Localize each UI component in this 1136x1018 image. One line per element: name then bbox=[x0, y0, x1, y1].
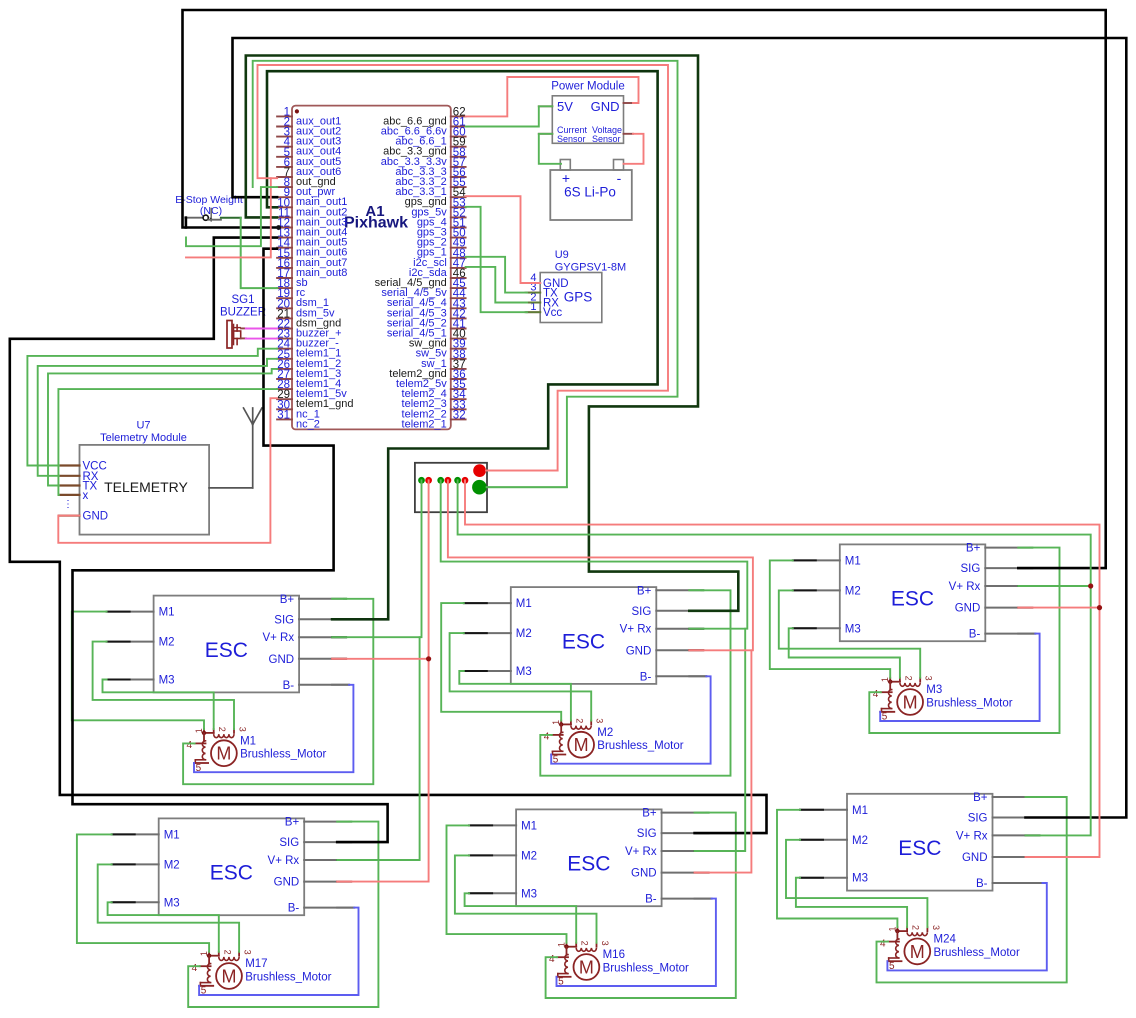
svg-text:ESC: ESC bbox=[210, 862, 253, 885]
wire telem1_3 A1-26 to telemetry TX bbox=[48, 369, 277, 486]
svg-text:3: 3 bbox=[238, 727, 248, 732]
wire U3 B- to M3 pin5 bbox=[880, 634, 1039, 721]
PDB pin dot 4 bbox=[445, 477, 452, 484]
wire PDB pin6 to ESC U3 and U6 GND bbox=[465, 480, 1100, 857]
wire abc_6.6_gnd A1-62 to power module GND bbox=[466, 77, 639, 116]
PDB pin dot 6 bbox=[462, 477, 469, 484]
junction U3 V+Rx tap bbox=[1088, 583, 1093, 588]
svg-text:U9: U9 bbox=[555, 249, 569, 261]
svg-text:U7: U7 bbox=[136, 420, 150, 432]
wire gps_5v A1-53 to GPS Vcc bbox=[466, 207, 527, 312]
svg-text:Brushless_Motor: Brushless_Motor bbox=[240, 749, 326, 761]
wire PDB pin2 to ESC U1 and U4 GND bbox=[337, 480, 428, 881]
svg-text:Brushless_Motor: Brushless_Motor bbox=[245, 971, 331, 983]
svg-text:Power Module: Power Module bbox=[551, 81, 625, 93]
wire U5 M2 to M16 pin3 bbox=[455, 855, 597, 942]
svg-text:nc_2: nc_2 bbox=[296, 418, 320, 430]
wire PDB GND east bbox=[487, 486, 567, 488]
junction U1 GND tap bbox=[426, 656, 431, 661]
svg-text:x: x bbox=[83, 490, 89, 502]
wire U2 B+ to M2 pin4 bbox=[540, 590, 730, 775]
svg-text:4: 4 bbox=[549, 954, 555, 965]
ESC U5 bbox=[469, 808, 711, 907]
svg-text:GND: GND bbox=[274, 877, 300, 889]
wire U4 M1 to M17 pin1 bbox=[77, 834, 209, 951]
svg-text:3: 3 bbox=[924, 676, 934, 681]
wire i2c_scl A1-48 to GPS TX bbox=[466, 257, 527, 293]
motor M17 Brushless_Motor bbox=[192, 950, 332, 997]
wire U5 B- to M16 pin5 bbox=[557, 899, 716, 986]
svg-text:M2: M2 bbox=[597, 727, 613, 739]
svg-text:SIG: SIG bbox=[631, 606, 651, 618]
ESC U3 bbox=[793, 543, 1036, 642]
node GND big green bbox=[472, 480, 487, 495]
wire abc_6.6_6.6v A1-61 to power module 5V bbox=[466, 106, 553, 126]
svg-text:2: 2 bbox=[574, 718, 584, 723]
svg-text:3: 3 bbox=[243, 950, 253, 955]
ESC U2 bbox=[464, 585, 707, 684]
svg-text:4: 4 bbox=[544, 732, 550, 743]
power distribution board PDB bbox=[415, 463, 487, 512]
svg-text:M: M bbox=[222, 967, 237, 987]
wire U6 B+ to M24 pin4 bbox=[877, 797, 1067, 982]
wire U3 M3 to M3 pin2 bbox=[789, 628, 900, 678]
wire main_out4 A1-12 to ESC U3 SIG bbox=[183, 10, 1106, 568]
wire U6 M2 to M24 pin3 bbox=[786, 840, 927, 927]
svg-text:M2: M2 bbox=[164, 859, 180, 871]
svg-text:4: 4 bbox=[873, 689, 879, 700]
svg-text:B-: B- bbox=[969, 629, 981, 641]
wire U2 M2 to M2 pin3 bbox=[450, 633, 592, 720]
wire U3 M1 to M3 pin1 bbox=[770, 560, 890, 677]
telemetry module U7 bbox=[59, 420, 209, 535]
svg-text:M3: M3 bbox=[852, 873, 868, 885]
wire branch to ESC U5 GND bbox=[695, 650, 752, 872]
svg-text:B-: B- bbox=[645, 894, 657, 906]
svg-text:Brushless_Motor: Brushless_Motor bbox=[597, 740, 683, 752]
flight controller A1 Pixhawk bbox=[292, 106, 451, 430]
svg-text:M17: M17 bbox=[245, 958, 267, 970]
wire current sensor to battery plus bbox=[539, 134, 561, 164]
svg-text:M1: M1 bbox=[240, 735, 256, 747]
svg-text:GND: GND bbox=[591, 99, 620, 114]
svg-text:3: 3 bbox=[595, 718, 605, 723]
wire buzzer minus A1-23 bbox=[246, 338, 277, 340]
PDB pin dot 5 bbox=[454, 477, 461, 484]
svg-text:V+ Rx: V+ Rx bbox=[956, 830, 988, 842]
svg-text:M2: M2 bbox=[845, 585, 861, 597]
wire E-stop to rc A1-18 bbox=[221, 217, 241, 219]
wire U3 B+ to M3 pin4 bbox=[869, 548, 1059, 733]
ESC U1 bbox=[107, 594, 350, 693]
svg-text:M3: M3 bbox=[164, 897, 180, 909]
svg-text:M3: M3 bbox=[521, 888, 537, 900]
wire telem1_2 A1-25 to telemetry RX bbox=[38, 359, 277, 476]
svg-text:M2: M2 bbox=[159, 637, 175, 649]
PDB pin dot 2 bbox=[425, 477, 432, 484]
svg-text:3: 3 bbox=[600, 941, 610, 946]
svg-text:2: 2 bbox=[911, 925, 921, 930]
svg-text:B-: B- bbox=[640, 671, 652, 683]
wire out_pwr A1-8 branch with open end bbox=[186, 187, 277, 246]
svg-text:Brushless_Motor: Brushless_Motor bbox=[603, 962, 689, 974]
svg-text:2: 2 bbox=[580, 941, 590, 946]
svg-text:ESC: ESC bbox=[898, 837, 941, 860]
buzzer SG1 bbox=[220, 294, 266, 348]
svg-text:-: - bbox=[617, 170, 622, 186]
wire out_pwr to PDB GND node bbox=[253, 61, 678, 487]
svg-text:ESC: ESC bbox=[205, 639, 248, 662]
svg-text:SIG: SIG bbox=[274, 614, 294, 626]
wire telem1_1 A1-24 to telemetry VCC bbox=[27, 349, 277, 466]
motor M24 Brushless_Motor bbox=[880, 925, 1020, 972]
svg-text:M: M bbox=[574, 735, 589, 755]
svg-text:BUZZER: BUZZER bbox=[220, 307, 266, 319]
wire main_out3 A1-11 to ESC U2 SIG dark green bbox=[246, 56, 739, 611]
svg-text:3: 3 bbox=[931, 925, 941, 930]
wire out_gnd branch to dangling end bbox=[186, 178, 271, 257]
wire U5 B+ to M16 pin4 bbox=[546, 813, 736, 998]
svg-text:V+ Rx: V+ Rx bbox=[268, 855, 300, 867]
A1 left pins 1-31 with labels bbox=[277, 106, 353, 430]
switch SW1 E-Stop Weight NC bbox=[175, 194, 243, 221]
svg-text:Brushless_Motor: Brushless_Motor bbox=[926, 697, 1012, 709]
svg-text:2: 2 bbox=[222, 950, 232, 955]
svg-text:Brushless_Motor: Brushless_Motor bbox=[934, 947, 1020, 959]
PDB pin dot 1 bbox=[418, 477, 425, 484]
wire U1 M1 to M1 pin1 bbox=[72, 612, 204, 729]
wire out_gnd A1-7 to PDB V+ node bbox=[258, 65, 669, 471]
wire telem1_5v A1-28 to telemetry x bbox=[58, 389, 277, 495]
svg-text:M: M bbox=[216, 744, 231, 764]
wire U3 M2 to M3 pin3 bbox=[779, 590, 920, 677]
wire U1 B+ to M1 pin4 bbox=[183, 599, 373, 784]
A1 right pins 62-32 with labels bbox=[375, 106, 467, 430]
svg-text:V+ Rx: V+ Rx bbox=[625, 846, 657, 858]
battery BT1 6S Li-Po bbox=[550, 160, 632, 221]
wire U4 B- to M17 pin5 bbox=[199, 908, 358, 995]
wire i2c_sda A1-47 to GPS RX bbox=[466, 267, 527, 303]
svg-text:B+: B+ bbox=[637, 585, 652, 597]
svg-text:M2: M2 bbox=[516, 628, 532, 640]
GPS module U9 GYGPSV1-8M bbox=[525, 249, 626, 323]
svg-text:M1: M1 bbox=[164, 829, 180, 841]
wire U1 M2 to M1 pin3 bbox=[93, 642, 234, 729]
svg-text:M1: M1 bbox=[516, 598, 532, 610]
svg-text:4: 4 bbox=[880, 938, 886, 949]
svg-text:2: 2 bbox=[217, 727, 227, 732]
svg-text:M3: M3 bbox=[516, 666, 532, 678]
svg-text:B+: B+ bbox=[642, 808, 657, 820]
wire U2 M1 to M2 pin1 bbox=[441, 603, 561, 720]
antenna AE1 bbox=[209, 408, 262, 488]
svg-text:V+ Rx: V+ Rx bbox=[620, 624, 652, 636]
wire main_out5 A1-13 to ESC U5 SIG bbox=[10, 238, 767, 834]
svg-text:TELEMETRY: TELEMETRY bbox=[104, 479, 188, 495]
svg-text:M3: M3 bbox=[845, 623, 861, 635]
wire telem1_gnd A1-29 to telemetry GND bbox=[58, 398, 277, 543]
svg-text:V+ Rx: V+ Rx bbox=[949, 581, 981, 593]
svg-text:Sensor: Sensor bbox=[557, 134, 586, 144]
svg-text:ESC: ESC bbox=[562, 630, 605, 653]
svg-text:Sensor: Sensor bbox=[592, 134, 621, 144]
wire U2 M3 to M2 pin2 bbox=[459, 671, 571, 721]
ESC U6 bbox=[800, 792, 1043, 891]
svg-text:B+: B+ bbox=[280, 594, 295, 606]
wire voltage sensor to battery minus bbox=[624, 134, 644, 164]
ESC U4 bbox=[112, 817, 355, 916]
svg-text:GND: GND bbox=[626, 645, 652, 657]
svg-text:telem2_1: telem2_1 bbox=[402, 418, 447, 430]
wire PDB pin4 to ESC U2 GND bbox=[448, 480, 753, 650]
wire U1 M3 to M1 pin2 bbox=[103, 680, 214, 730]
wire main_out1 A1-9 to ESC U6 SIG bbox=[233, 38, 1127, 818]
svg-text:M1: M1 bbox=[845, 555, 861, 567]
svg-text:M16: M16 bbox=[603, 949, 625, 961]
svg-text:ESC: ESC bbox=[567, 853, 610, 876]
svg-text:4: 4 bbox=[192, 963, 198, 974]
wire PDB pin1 to ESC U1 and U4 V+Rx bbox=[332, 480, 421, 637]
svg-text:SIG: SIG bbox=[279, 837, 299, 849]
wire U4 M2 to M17 pin3 bbox=[98, 864, 239, 951]
svg-text:Pixhawk: Pixhawk bbox=[344, 215, 408, 232]
svg-text:B-: B- bbox=[283, 680, 295, 692]
svg-text:B+: B+ bbox=[285, 817, 300, 829]
svg-text:B+: B+ bbox=[966, 543, 981, 555]
wire PDB V+ east bbox=[486, 470, 558, 472]
wire U5 M1 to M16 pin1 bbox=[447, 825, 567, 942]
svg-text:B+: B+ bbox=[973, 792, 988, 804]
svg-text:M3: M3 bbox=[926, 684, 942, 696]
motor M3 Brushless_Motor bbox=[873, 676, 1013, 723]
svg-text:M1: M1 bbox=[852, 805, 868, 817]
svg-text:4: 4 bbox=[187, 740, 193, 751]
wire main_out2 A1-10 to ESC U1 SIG dark green bbox=[267, 71, 658, 619]
wire E-stop to main_out4 net bbox=[185, 218, 188, 228]
wire U4 M3 to M17 pin2 bbox=[108, 902, 219, 952]
svg-text:GND: GND bbox=[955, 603, 981, 615]
svg-text:32: 32 bbox=[453, 409, 466, 421]
power module U8 bbox=[539, 81, 633, 145]
wire gps_gnd A1-54 to GPS GND bbox=[466, 196, 541, 283]
svg-text:SG1: SG1 bbox=[231, 294, 254, 306]
svg-text:SIG: SIG bbox=[960, 563, 980, 575]
svg-text:31: 31 bbox=[277, 409, 290, 421]
svg-text:ESC: ESC bbox=[891, 588, 934, 611]
motor M16 Brushless_Motor bbox=[549, 941, 689, 988]
wire U4 B+ to M17 pin4 bbox=[188, 822, 378, 1007]
svg-text:Vcc: Vcc bbox=[543, 307, 562, 319]
motor M1 Brushless_Motor bbox=[187, 727, 327, 774]
wire U6 M1 to M24 pin1 bbox=[777, 810, 897, 927]
svg-text:M2: M2 bbox=[852, 835, 868, 847]
svg-text:M1: M1 bbox=[159, 607, 175, 619]
wire PDB pin5 to ESC U3 and U6 V+Rx bbox=[458, 480, 1091, 835]
wire U2 B- to M2 pin5 bbox=[551, 676, 710, 763]
svg-text:GYGPSV1-8M: GYGPSV1-8M bbox=[555, 262, 627, 274]
svg-text:M1: M1 bbox=[521, 820, 537, 832]
svg-text:M24: M24 bbox=[934, 934, 957, 946]
svg-text:⋮: ⋮ bbox=[63, 499, 73, 510]
svg-text:V+ Rx: V+ Rx bbox=[262, 632, 294, 644]
svg-text:Telemetry Module: Telemetry Module bbox=[100, 432, 187, 444]
svg-text:5V: 5V bbox=[557, 99, 573, 114]
svg-text:M3: M3 bbox=[159, 675, 175, 687]
svg-text:GND: GND bbox=[269, 654, 295, 666]
wire branch to ESC U5 V+Rx bbox=[695, 629, 746, 851]
svg-text:GND: GND bbox=[631, 868, 657, 880]
svg-text:GND: GND bbox=[962, 852, 988, 864]
motor M2 Brushless_Motor bbox=[544, 718, 684, 765]
svg-text:M: M bbox=[579, 958, 594, 978]
wire main_out6 A1-14 to ESC U4 SIG bbox=[73, 249, 388, 842]
wire buzzer plus A1-22 bbox=[246, 328, 277, 330]
wire U5 M3 to M16 pin2 bbox=[465, 893, 577, 943]
wire U6 B- to M24 pin5 bbox=[887, 883, 1046, 970]
junction main_out4 pin bbox=[276, 225, 281, 230]
svg-text:M: M bbox=[910, 942, 925, 962]
wire U1 B- to M1 pin5 bbox=[194, 685, 353, 772]
junction U3 GND tap bbox=[1097, 605, 1102, 610]
svg-text:6S Li-Po: 6S Li-Po bbox=[564, 185, 616, 200]
svg-text:SIG: SIG bbox=[968, 813, 988, 825]
wire U6 M3 to M24 pin2 bbox=[796, 878, 907, 928]
svg-text:B-: B- bbox=[288, 903, 300, 915]
svg-text:SIG: SIG bbox=[637, 828, 657, 840]
svg-text:2: 2 bbox=[903, 676, 913, 681]
svg-text:GND: GND bbox=[83, 511, 109, 523]
svg-text:GPS: GPS bbox=[564, 290, 593, 305]
svg-text:M2: M2 bbox=[521, 850, 537, 862]
wire PDB pin3 to ESC U2 V+Rx bbox=[441, 480, 748, 628]
node V+ big red bbox=[473, 464, 486, 477]
svg-text:B-: B- bbox=[976, 878, 988, 890]
svg-text:M: M bbox=[903, 693, 918, 713]
PDB pin dot 3 bbox=[437, 477, 444, 484]
